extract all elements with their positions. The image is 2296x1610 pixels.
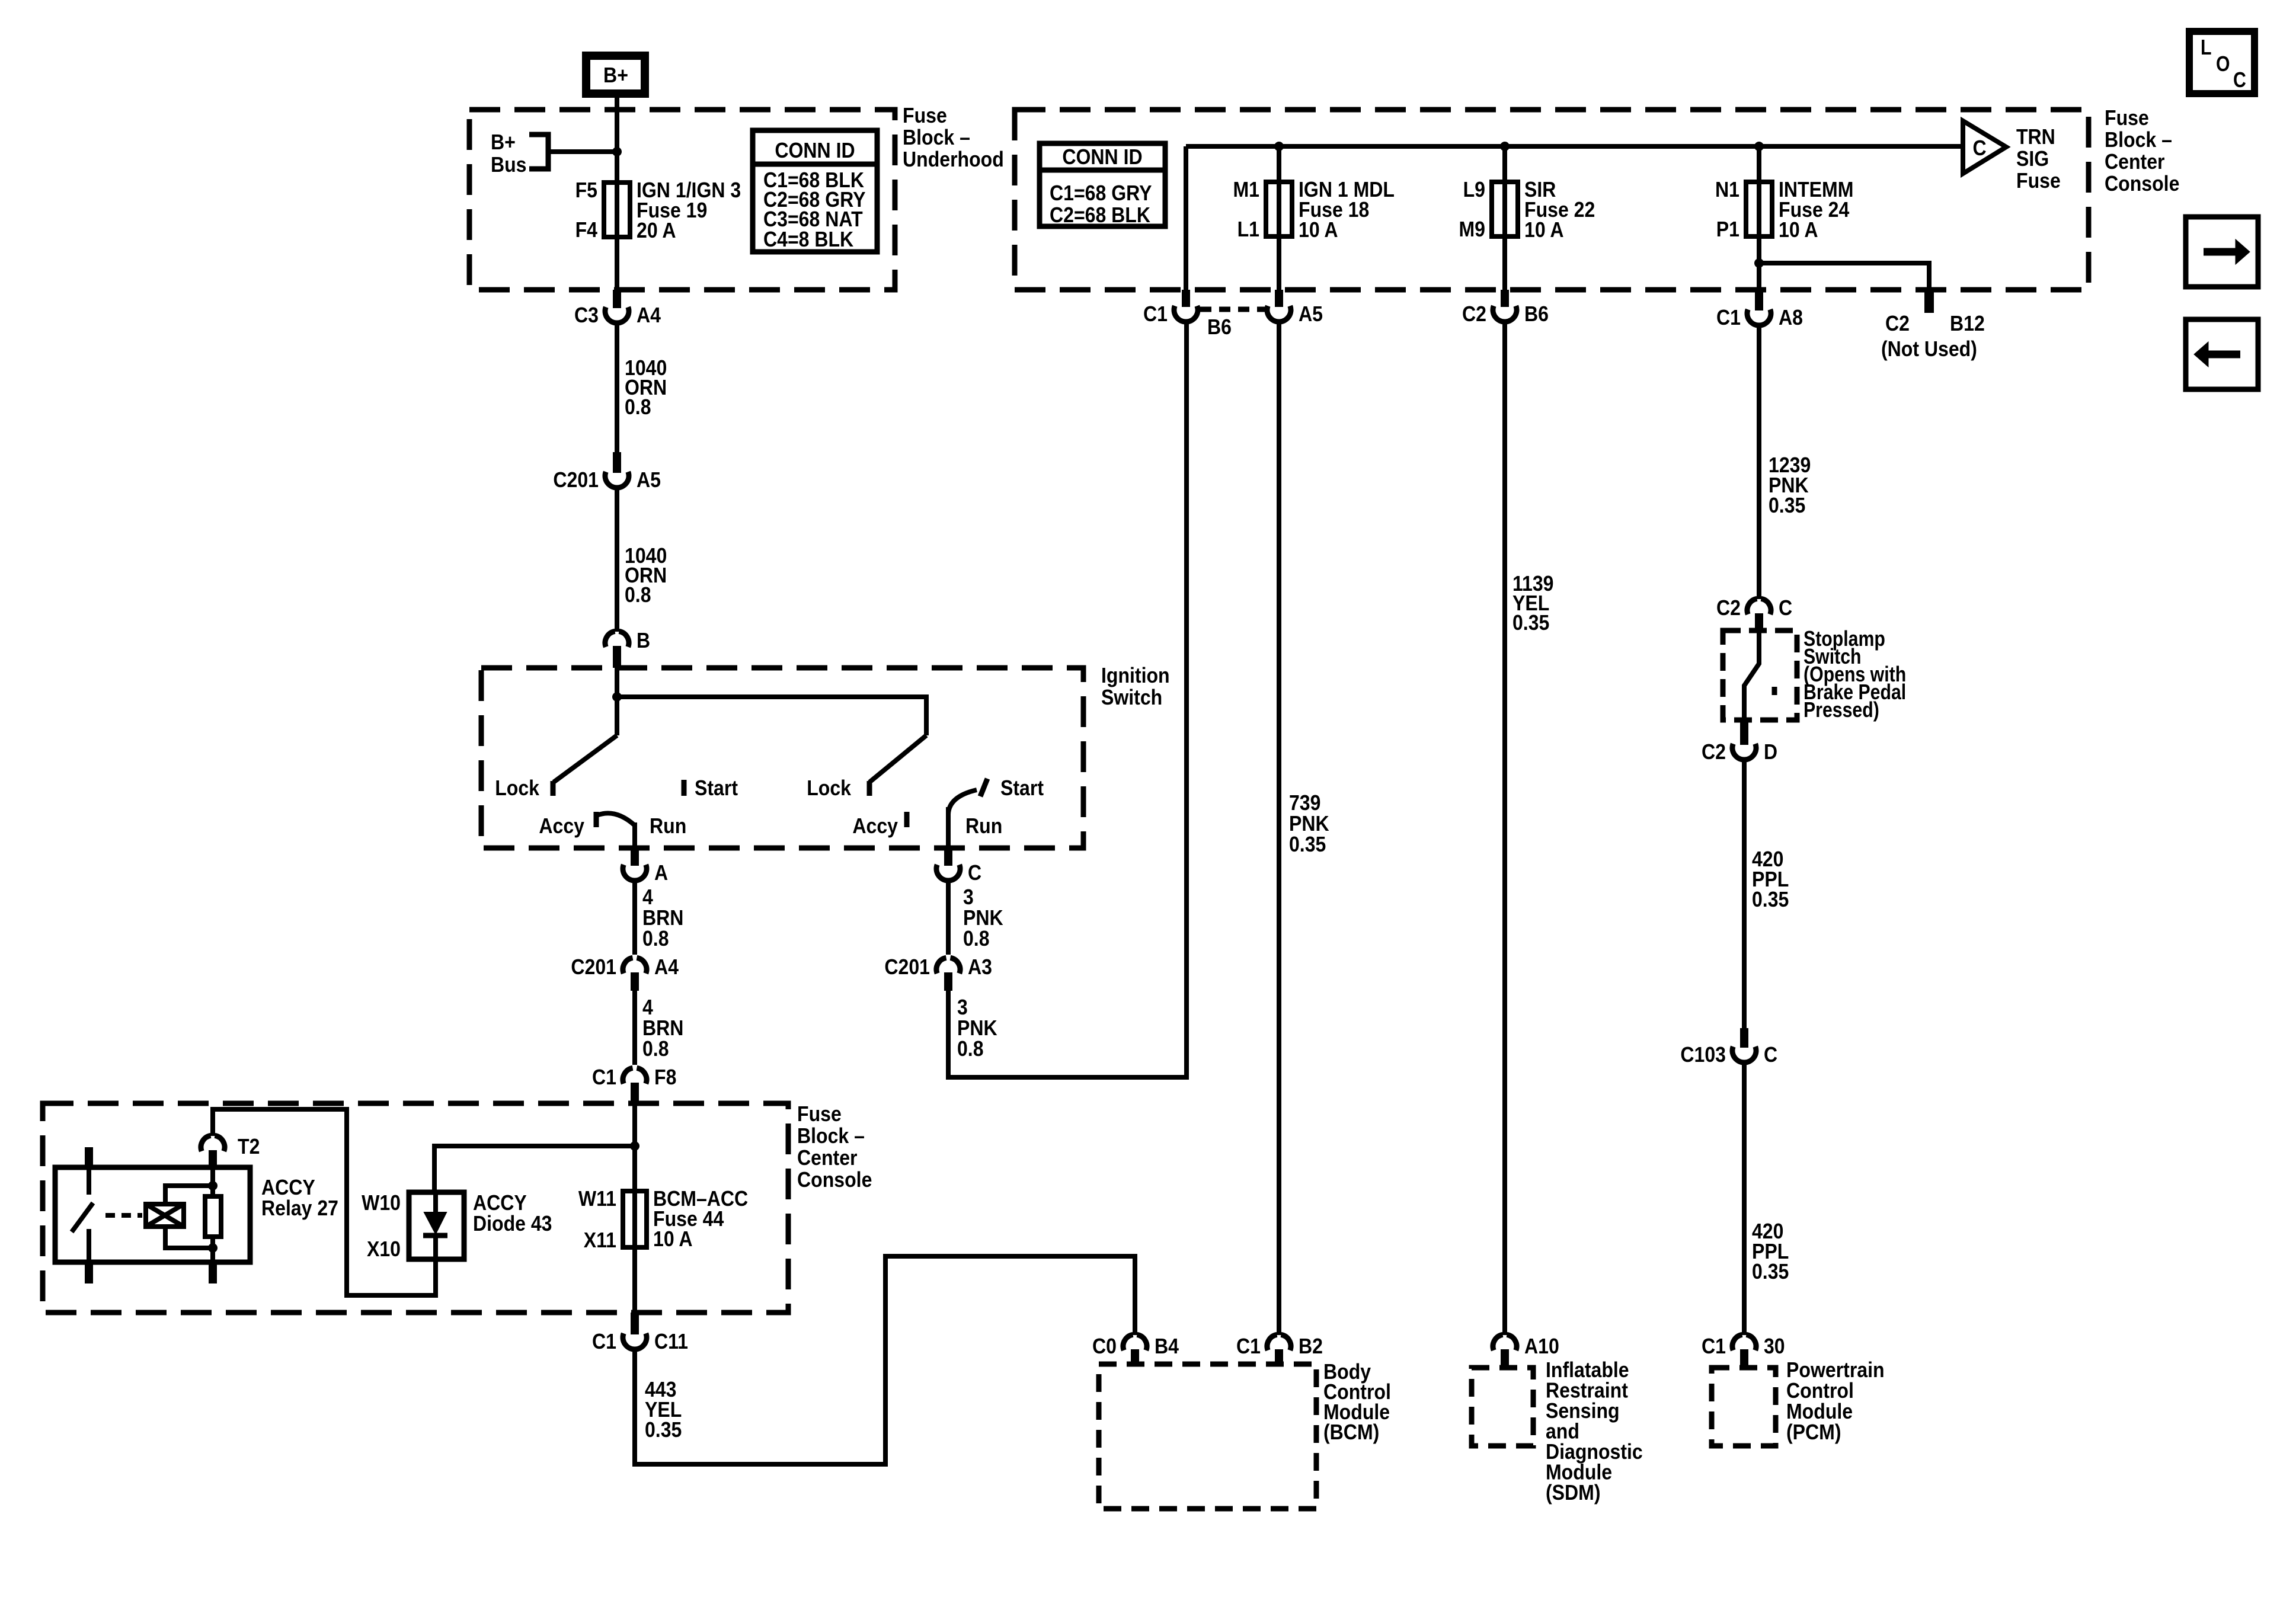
svg-text:C: C — [1972, 136, 1986, 160]
stub C2 B12 (Not Used) — [1924, 290, 1934, 313]
contact Start pole 1 — [682, 780, 687, 796]
svg-text:B2: B2 — [1299, 1334, 1323, 1358]
box Fuse Block - Center Console upper — [1015, 110, 2089, 290]
connector C ignition Run output — [936, 848, 981, 885]
svg-text:(Not Used): (Not Used) — [1881, 337, 1977, 361]
svg-text:X10: X10 — [367, 1237, 401, 1261]
svg-text:C3: C3 — [574, 303, 599, 327]
svg-text:X11: X11 — [584, 1228, 616, 1252]
wire wire 3 PNK upper — [946, 881, 951, 955]
CONN ID table center console — [1040, 143, 1165, 227]
junction node fuse44 diode tap — [630, 1141, 639, 1151]
svg-text:C0: C0 — [1092, 1334, 1117, 1358]
junction node fuse 24 tap — [1754, 142, 1764, 151]
svg-text:B: B — [637, 628, 650, 652]
label label PCM — [1786, 1358, 1885, 1444]
svg-text:Accy: Accy — [539, 814, 584, 838]
connector A5 — [1267, 290, 1323, 326]
svg-text:0.35: 0.35 — [1752, 1259, 1789, 1283]
wire diode top to fuse44 node — [434, 1146, 635, 1192]
svg-text:0.35: 0.35 — [1289, 832, 1326, 856]
svg-text:0.8: 0.8 — [957, 1036, 984, 1061]
svg-text:Start: Start — [1000, 776, 1044, 800]
ACCY Diode 43 — [362, 1190, 552, 1261]
wire wire 4 BRN upper — [632, 881, 637, 955]
connector C1 A8 — [1716, 290, 1803, 329]
svg-text:T2: T2 — [238, 1134, 260, 1158]
svg-text:C201: C201 — [571, 955, 616, 979]
svg-text:10 A: 10 A — [1524, 217, 1564, 242]
svg-text:Center: Center — [797, 1145, 858, 1170]
svg-text:Lock: Lock — [495, 776, 540, 800]
wire label 1040 ORN 0.8 lower — [625, 543, 667, 607]
box Body Control Module — [1099, 1364, 1316, 1509]
wire Run output pole 2 — [946, 807, 951, 848]
ACCY Relay 27 — [55, 1147, 338, 1283]
wire label 420 PPL 0.35 lower — [1752, 1219, 1789, 1283]
svg-text:0.8: 0.8 — [625, 582, 651, 607]
svg-text:Fuse: Fuse — [903, 103, 947, 127]
wire label 1139 YEL 0.35 — [1512, 571, 1554, 635]
wire branch to B12 not used — [1759, 263, 1929, 292]
svg-text:C103: C103 — [1680, 1042, 1726, 1067]
svg-text:C: C — [2233, 68, 2246, 92]
junction node relay coil bottom — [208, 1243, 218, 1253]
contact arc Run-Start pole 2 — [948, 790, 977, 814]
svg-text:CONN ID: CONN ID — [775, 138, 855, 162]
svg-text:W11: W11 — [578, 1186, 616, 1211]
svg-text:Run: Run — [650, 814, 686, 838]
svg-text:F5: F5 — [575, 178, 597, 202]
svg-text:C1: C1 — [1716, 305, 1741, 329]
junction node fuse 22 tap — [1500, 142, 1510, 151]
svg-text:0.8: 0.8 — [642, 1036, 669, 1061]
box PCM — [1712, 1368, 1776, 1446]
connector C2 B6 — [1462, 290, 1549, 326]
arrow previous page — [2186, 319, 2258, 389]
svg-text:N1: N1 — [1715, 177, 1739, 201]
connector C1 30 — [1702, 1334, 1785, 1368]
wire bus through Fuse 24 to C1 A8 — [1757, 146, 1761, 290]
wire wire 420 PPL upper — [1742, 760, 1747, 1028]
svg-text:C1: C1 — [592, 1329, 616, 1353]
svg-text:W10: W10 — [362, 1190, 401, 1215]
svg-text:Start: Start — [695, 776, 738, 800]
svg-text:10 A: 10 A — [1299, 217, 1338, 242]
svg-text:F4: F4 — [575, 217, 597, 242]
connector C201 A3 — [884, 955, 992, 991]
wire ignition feed into switch — [615, 668, 619, 735]
fuse F24 INTEMM Fuse 24 10A — [1715, 177, 1853, 242]
svg-text:Fuse: Fuse — [2105, 105, 2149, 130]
svg-text:Accy: Accy — [852, 814, 898, 838]
svg-text:CONN ID: CONN ID — [1062, 145, 1142, 169]
LOC legend box — [2189, 31, 2255, 94]
wire bus through Fuse 22 to C2 B6 — [1502, 146, 1507, 290]
wire Run output pole 1 — [632, 822, 637, 848]
wire label 443 YEL 0.35 — [645, 1377, 682, 1442]
wire wire 443 YEL to BCM B4 — [635, 1256, 1135, 1464]
svg-text:Switch: Switch — [1101, 685, 1162, 709]
label label Fuse Block - Center Console lower — [797, 1102, 872, 1192]
wire feed to second pole — [617, 697, 926, 735]
svg-text:L9: L9 — [1463, 177, 1485, 201]
switch wiper pole 1 (Lock) — [554, 735, 617, 782]
svg-text:M9: M9 — [1459, 217, 1486, 241]
svg-text:A3: A3 — [968, 955, 992, 979]
arrow next page — [2186, 217, 2258, 287]
box SDM — [1472, 1368, 1533, 1446]
svg-text:0.35: 0.35 — [645, 1417, 682, 1442]
svg-text:C1: C1 — [1236, 1334, 1261, 1358]
connector C201 A5 — [553, 452, 661, 492]
svg-text:C2: C2 — [1702, 740, 1726, 764]
svg-text:0.35: 0.35 — [1769, 493, 1805, 517]
power feed B+ terminal box — [586, 56, 645, 94]
contact Accy pole 1 — [594, 812, 599, 827]
wire label 3 PNK 0.8 lower — [957, 995, 997, 1061]
svg-text:A: A — [654, 860, 668, 885]
connector C1 F8 — [592, 1065, 676, 1101]
TRN SIG Fuse off-page triangle C — [1963, 121, 2006, 174]
label label Fuse Block - Center Console upper — [2105, 105, 2179, 196]
wire B+ Bus to main feed — [548, 149, 615, 154]
svg-text:Fuse: Fuse — [797, 1102, 842, 1126]
dashed link C1 B6 to A5 — [1200, 307, 1266, 312]
wire F8 through fuse 44 to C1 C11 — [632, 1101, 637, 1313]
svg-text:L: L — [2201, 35, 2212, 59]
junction node fuse 24 split — [1754, 258, 1764, 268]
svg-text:P1: P1 — [1716, 217, 1739, 241]
svg-text:B4: B4 — [1155, 1334, 1179, 1358]
wire bus through Fuse 18 to A5 — [1277, 146, 1281, 290]
svg-text:C: C — [1764, 1042, 1777, 1067]
wire label 3 PNK 0.8 upper — [963, 885, 1003, 950]
svg-text:C1: C1 — [592, 1065, 616, 1089]
svg-text:F8: F8 — [654, 1065, 676, 1089]
label label Ignition Switch — [1101, 663, 1170, 709]
svg-text:(PCM): (PCM) — [1786, 1420, 1841, 1444]
wire label 1239 PNK 0.35 — [1769, 453, 1811, 517]
svg-text:0.8: 0.8 — [625, 395, 651, 419]
svg-text:A5: A5 — [637, 468, 661, 492]
wire wire 1139 YEL to SDM — [1502, 322, 1507, 1335]
stoplamp switch fixed contact — [1772, 687, 1777, 695]
junction node ignition feed split — [612, 692, 622, 702]
svg-text:20 A: 20 A — [637, 218, 676, 242]
svg-text:Block –: Block – — [797, 1124, 865, 1148]
label label Fuse Block - Underhood — [903, 103, 1004, 171]
connector A ignition Accy output — [623, 848, 668, 885]
connector C1 B2 — [1236, 1334, 1323, 1364]
svg-text:Relay 27: Relay 27 — [261, 1196, 338, 1220]
wire wire 3 PNK to C1 B6 — [948, 322, 1187, 1077]
svg-text:A4: A4 — [654, 955, 679, 979]
svg-text:Bus: Bus — [491, 152, 527, 177]
junction node B+ bus tap — [612, 147, 622, 156]
svg-text:TRN: TRN — [2016, 124, 2055, 149]
wire diode to T2 relay wire — [213, 1109, 436, 1295]
svg-text:0.8: 0.8 — [963, 926, 990, 950]
svg-text:C1: C1 — [1143, 302, 1168, 326]
svg-text:Underhood: Underhood — [903, 147, 1004, 171]
svg-text:A8: A8 — [1779, 305, 1803, 329]
svg-text:C2: C2 — [1716, 596, 1741, 620]
box Ignition Switch — [481, 668, 1083, 848]
connector C1 B6 — [1143, 290, 1198, 326]
svg-text:10 A: 10 A — [1779, 217, 1818, 242]
label label Stoplamp Switch — [1803, 626, 1906, 722]
connector B ignition switch feed — [605, 628, 650, 668]
junction node relay coil top — [208, 1181, 218, 1190]
wire label 1040 ORN 0.8 upper — [625, 356, 667, 419]
svg-text:Center: Center — [2105, 149, 2165, 174]
contact Start pole 2 — [980, 779, 987, 796]
svg-text:B6: B6 — [1207, 315, 1232, 339]
svg-text:C1: C1 — [1702, 1334, 1726, 1358]
wire label 420 PPL 0.35 upper — [1752, 847, 1789, 911]
contact Lock pole 2 — [867, 781, 872, 796]
svg-text:10 A: 10 A — [653, 1227, 693, 1251]
box Fuse Block - Underhood — [469, 110, 895, 290]
switch wiper pole 2 (Lock) — [869, 735, 926, 782]
svg-text:Lock: Lock — [807, 776, 852, 800]
wire wire 1040 ORN upper — [615, 323, 619, 452]
wire bus TRN SIG fuse feed — [1186, 144, 1963, 149]
svg-text:Block –: Block – — [903, 125, 970, 149]
svg-text:C2=68 BLK: C2=68 BLK — [1050, 203, 1150, 227]
svg-text:(SDM): (SDM) — [1546, 1480, 1601, 1505]
svg-text:C201: C201 — [553, 468, 599, 492]
contact arc Accy-Run pole 1 — [597, 813, 634, 825]
wire wire 4 BRN lower — [632, 991, 637, 1065]
fuse F18 IGN 1 MDL Fuse 18 10A — [1233, 177, 1395, 242]
svg-text:A10: A10 — [1524, 1334, 1559, 1358]
connector C201 A4 — [571, 955, 679, 991]
wire label 4 BRN 0.8 upper — [642, 885, 683, 950]
wire B+ to Fuse 19 and C3-A4 — [615, 94, 619, 290]
connector C2 D — [1702, 721, 1777, 764]
svg-text:O: O — [2216, 52, 2230, 76]
wire wire 1040 ORN lower — [615, 488, 619, 632]
svg-text:A4: A4 — [637, 303, 661, 327]
fuse F19 IGN1/IGN3 Fuse 19 20A — [575, 178, 741, 242]
fuse F44 BCM-ACC Fuse 44 10A — [578, 1186, 748, 1252]
wire wire 1239 PNK — [1757, 325, 1761, 599]
box Fuse Block - Center Console lower — [43, 1103, 788, 1313]
svg-text:C201: C201 — [884, 955, 930, 979]
svg-text:Diode 43: Diode 43 — [473, 1211, 552, 1235]
svg-text:B12: B12 — [1950, 311, 1985, 335]
contact Lock pole 1 — [551, 781, 556, 796]
svg-text:Console: Console — [797, 1167, 872, 1192]
svg-text:0.8: 0.8 — [642, 926, 669, 950]
wire wire 739 PNK to BCM — [1277, 322, 1281, 1335]
svg-text:C: C — [968, 860, 981, 885]
connector C3 A4 — [574, 290, 661, 327]
svg-text:A5: A5 — [1299, 302, 1323, 326]
svg-text:Fuse: Fuse — [2016, 168, 2061, 193]
connector C2 C — [1716, 596, 1792, 630]
svg-text:C4=8 BLK: C4=8 BLK — [763, 227, 853, 251]
svg-text:30: 30 — [1764, 1334, 1785, 1358]
svg-text:0.35: 0.35 — [1512, 610, 1549, 635]
wire drop to C1 B6 — [1184, 146, 1188, 290]
svg-text:C: C — [1779, 596, 1792, 620]
svg-text:B+: B+ — [603, 63, 628, 87]
label label SDM — [1546, 1358, 1643, 1505]
stoplamp switch blade — [1744, 630, 1759, 720]
svg-text:Run: Run — [965, 814, 1002, 838]
CONN ID table underhood — [753, 130, 877, 252]
connector T2 — [201, 1134, 260, 1167]
wire wire 420 PPL lower — [1742, 1062, 1747, 1335]
junction node fuse 18 tap — [1274, 142, 1284, 151]
svg-text:SIG: SIG — [2016, 146, 2049, 171]
svg-text:Pressed): Pressed) — [1803, 697, 1879, 722]
svg-text:0.35: 0.35 — [1752, 887, 1789, 911]
label label BCM — [1323, 1359, 1391, 1444]
contact Accy pole 2 — [904, 812, 910, 827]
svg-text:D: D — [1764, 740, 1777, 764]
svg-text:C11: C11 — [654, 1329, 688, 1353]
fuse F22 SIR Fuse 22 10A — [1459, 177, 1595, 242]
wire label 4 BRN 0.8 lower — [642, 995, 683, 1061]
connector C1 C11 — [592, 1313, 688, 1353]
svg-text:Ignition: Ignition — [1101, 663, 1170, 687]
node B+ Bus — [491, 130, 548, 177]
svg-text:Console: Console — [2105, 171, 2179, 196]
svg-text:C2: C2 — [1462, 302, 1486, 326]
svg-text:(BCM): (BCM) — [1323, 1420, 1379, 1444]
svg-text:B+: B+ — [491, 130, 516, 154]
label label TRN SIG Fuse — [2016, 124, 2061, 193]
connector C0 B4 — [1092, 1334, 1179, 1364]
svg-text:M1: M1 — [1233, 177, 1260, 201]
connector A10 — [1493, 1334, 1559, 1368]
connector C103 C — [1680, 1028, 1777, 1067]
svg-text:C2: C2 — [1885, 311, 1910, 335]
wire label 739 PNK 0.35 — [1289, 790, 1329, 856]
svg-text:L1: L1 — [1237, 217, 1259, 241]
svg-text:C1=68 GRY: C1=68 GRY — [1050, 181, 1152, 205]
box Stoplamp Switch — [1723, 630, 1797, 720]
svg-text:B6: B6 — [1524, 302, 1549, 326]
svg-text:Block –: Block – — [2105, 127, 2172, 152]
